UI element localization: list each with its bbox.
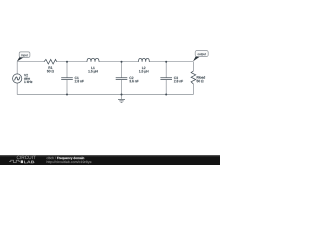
wire right vertical bottom (192, 84, 194, 95)
wire R1 to L1 through node A (57, 61, 87, 63)
ground (118, 99, 125, 102)
wire (17, 62, 193, 99)
wire L2 to output corner through node C (149, 61, 193, 63)
node B (top junction) (121, 61, 123, 63)
value 1 kHz (V2) (24, 81, 32, 83)
capacitor C1 (61, 77, 84, 83)
label Rload (197, 76, 205, 78)
value 50 Ohm (R1) (47, 70, 54, 72)
inductor L2 (139, 58, 150, 73)
wire L1 to L2 through node B (99, 61, 139, 63)
label C3 (174, 77, 178, 79)
wire C1 branch lower (66, 80, 68, 95)
wire below source to bottom rail (16, 83, 18, 94)
footer title line (47, 157, 56, 159)
node input flag (17, 52, 30, 62)
value 2.8 nF (C1) (75, 80, 84, 82)
node C (top junction) (165, 61, 167, 63)
wire ground stub (121, 95, 123, 100)
node C bottom junction (165, 94, 167, 96)
wire C3 branch upper (165, 62, 167, 78)
wire C3 branch lower (165, 80, 167, 95)
label C2 (129, 77, 133, 79)
wire C1 branch upper (66, 62, 68, 78)
label V2 (24, 74, 28, 76)
voltage source V2 (13, 74, 33, 83)
value 50 Ohm (Rload) (197, 80, 204, 82)
node A bottom junction (66, 94, 68, 96)
label L2 (142, 67, 145, 69)
value 1.5 uH (L2) (139, 70, 148, 73)
node output flag (193, 51, 208, 62)
capacitor C3 (160, 77, 183, 83)
wire top-left vertical (16, 62, 18, 74)
resistor Rload (191, 71, 205, 84)
wire C2 branch upper (121, 62, 123, 78)
wire bottom rail (17, 94, 193, 96)
value 1.5 uH (L1) (88, 70, 97, 73)
wire C2 branch lower (121, 80, 123, 95)
footer logo LAB (24, 161, 34, 164)
footer logo squarewave (9, 160, 20, 162)
node gnd junction (121, 94, 123, 96)
resistor R1 (44, 59, 57, 72)
value sine (V2) (24, 77, 30, 79)
inductor L1 (87, 58, 99, 73)
node A (top junction) (66, 61, 68, 63)
footer url line (47, 161, 92, 164)
label C1 (75, 77, 79, 79)
value 3.6 nF (C2) (129, 80, 138, 82)
value 2.8 nF (C3) (174, 80, 183, 82)
footer logo CIRCUIT (17, 156, 36, 160)
capacitor C2 (116, 77, 139, 83)
wire right vertical top (192, 62, 194, 71)
wire top: corner to R1 (17, 61, 44, 63)
label L1 (91, 67, 94, 69)
label R1 (49, 67, 53, 69)
